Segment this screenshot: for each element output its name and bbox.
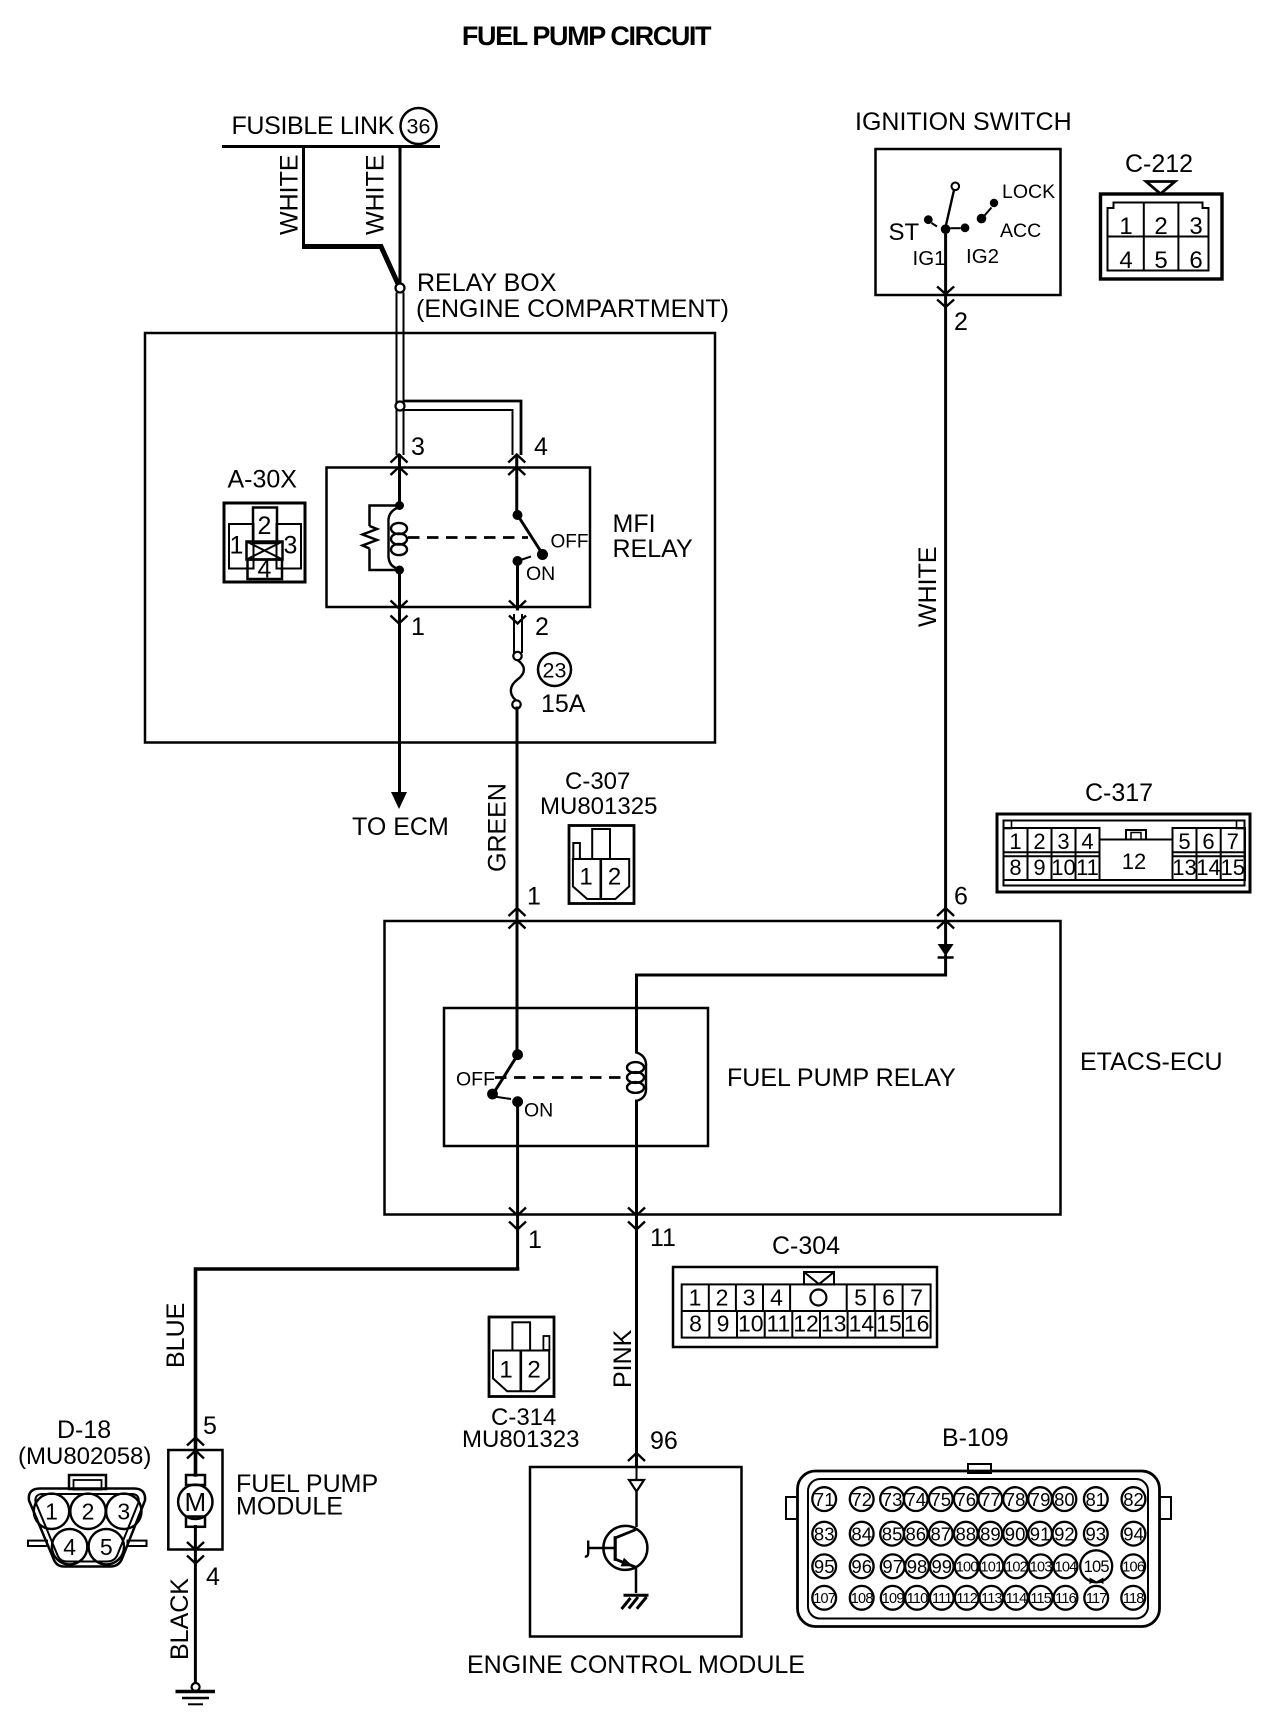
svg-text:75: 75 — [931, 1489, 952, 1510]
svg-text:C-317: C-317 — [1085, 779, 1153, 807]
ignition switch box — [876, 149, 1061, 295]
svg-text:4: 4 — [770, 1285, 783, 1311]
svg-text:3: 3 — [1057, 829, 1069, 854]
FP switch blade (OFF position) — [493, 1055, 518, 1094]
contact dot IG2 — [950, 223, 969, 232]
fuse number 23 — [538, 653, 571, 686]
svg-text:ON: ON — [526, 563, 555, 585]
contact dot LOCK — [990, 199, 998, 207]
pin 11 arrow — [628, 1208, 645, 1230]
FP OFF contact dot — [487, 1089, 498, 1100]
connector C-304 symbol — [673, 1267, 937, 1347]
wire thick jog joining left wire to right wire — [302, 247, 399, 287]
wire triangle to transistor — [635, 1492, 638, 1528]
svg-text:2: 2 — [1033, 829, 1045, 854]
svg-text:OFF: OFF — [456, 1069, 495, 1091]
svg-text:A-30X: A-30X — [228, 466, 298, 494]
svg-text:94: 94 — [1123, 1523, 1144, 1544]
fuel pump module box — [168, 1450, 222, 1550]
wire MFI coil feed — [398, 456, 401, 505]
svg-text:LOCK: LOCK — [1002, 181, 1055, 203]
svg-text:87: 87 — [931, 1523, 952, 1544]
svg-text:117: 117 — [1086, 1591, 1107, 1607]
svg-text:6: 6 — [882, 1285, 895, 1311]
svg-text:1: 1 — [579, 864, 592, 891]
wire WHITE left from fusible link — [302, 148, 305, 247]
wire switch to pin 2 — [516, 561, 519, 609]
fuse bottom ring — [512, 700, 520, 708]
svg-text:88: 88 — [956, 1523, 977, 1544]
svg-text:104: 104 — [1055, 1560, 1078, 1576]
svg-text:11: 11 — [1076, 855, 1099, 880]
svg-text:1: 1 — [230, 532, 244, 560]
connector C-307 symbol — [569, 826, 634, 904]
wire ignition common to pin 2 — [944, 229, 947, 944]
svg-text:90: 90 — [1005, 1523, 1026, 1544]
svg-text:23: 23 — [543, 659, 567, 683]
pin 1 arrow (ETACS top) — [509, 908, 526, 929]
svg-text:BLUE: BLUE — [162, 1303, 190, 1368]
svg-text:106: 106 — [1122, 1560, 1145, 1576]
wire WHITE right from fusible link — [399, 148, 402, 283]
svg-text:112: 112 — [956, 1591, 977, 1607]
input triangle (ECM) — [629, 1467, 644, 1492]
connector C-314 labels — [462, 1404, 579, 1453]
svg-text:96: 96 — [650, 1427, 678, 1455]
connector C-307 labels — [540, 768, 657, 820]
svg-text:4: 4 — [1119, 247, 1132, 274]
fuse element 23 15A — [511, 660, 524, 700]
dashed actuation line MFI — [408, 536, 528, 539]
svg-text:80: 80 — [1054, 1489, 1075, 1510]
svg-text:81: 81 — [1086, 1489, 1107, 1510]
transistor Q (ECM driver) — [585, 1526, 648, 1570]
svg-text:(MU802058): (MU802058) — [18, 1443, 151, 1470]
svg-text:14: 14 — [849, 1311, 875, 1337]
svg-text:11: 11 — [650, 1224, 676, 1252]
svg-text:105: 105 — [1084, 1558, 1110, 1576]
svg-text:RELAY: RELAY — [613, 535, 693, 563]
svg-text:82: 82 — [1123, 1489, 1144, 1510]
svg-text:2: 2 — [82, 1499, 95, 1525]
svg-text:FUEL PUMP RELAY: FUEL PUMP RELAY — [727, 1064, 956, 1092]
svg-text:2: 2 — [608, 864, 621, 891]
OFF contact dot — [537, 549, 548, 560]
MFI relay label — [613, 510, 693, 563]
svg-text:100: 100 — [956, 1560, 979, 1576]
junction dot top of coil — [395, 501, 404, 510]
junction ring at branch — [396, 402, 405, 411]
svg-text:WHITE: WHITE — [362, 154, 390, 235]
svg-text:IG2: IG2 — [966, 245, 999, 268]
svg-text:3: 3 — [284, 532, 298, 560]
svg-text:95: 95 — [814, 1556, 835, 1577]
pin 4 arrow (module) — [187, 1542, 204, 1564]
svg-text:OFF: OFF — [551, 532, 589, 553]
svg-text:FUSIBLE LINK: FUSIBLE LINK — [232, 112, 395, 140]
pin 2 arrow (ignition) — [937, 287, 954, 308]
svg-text:BLACK: BLACK — [166, 1578, 194, 1660]
connector B-109 symbol — [786, 1464, 1171, 1627]
svg-text:5: 5 — [1154, 247, 1167, 274]
svg-text:TO ECM: TO ECM — [352, 813, 449, 841]
fuel pump module label — [236, 1470, 378, 1521]
junction dot bottom of coil — [395, 566, 404, 575]
svg-text:71: 71 — [814, 1489, 835, 1510]
pin 2 arrow — [509, 601, 526, 624]
wire transistor to ground — [635, 1566, 638, 1593]
wire motor to pin 4 — [194, 1527, 197, 1684]
svg-text:ST: ST — [889, 219, 920, 246]
svg-text:110: 110 — [907, 1591, 928, 1607]
pin 1 arrow (ETACS bottom) — [509, 1208, 526, 1230]
svg-text:97: 97 — [882, 1556, 903, 1577]
svg-text:12: 12 — [1122, 849, 1146, 874]
wire double-line vertical into relay box — [397, 293, 404, 456]
svg-text:ACC: ACC — [1000, 220, 1041, 242]
svg-text:116: 116 — [1055, 1591, 1076, 1607]
svg-text:77: 77 — [980, 1489, 1001, 1510]
svg-text:13: 13 — [821, 1311, 847, 1337]
ignition switch pivot ring — [952, 183, 960, 191]
connector D-18 labels — [18, 1416, 151, 1470]
wire double-line branch to pin 4 — [404, 401, 522, 455]
svg-text:2: 2 — [954, 308, 968, 336]
svg-text:86: 86 — [906, 1523, 927, 1544]
svg-text:16: 16 — [904, 1311, 930, 1337]
arrow TO ECM — [391, 792, 407, 809]
svg-text:8: 8 — [689, 1311, 702, 1337]
resistor parallel with coil — [363, 506, 398, 571]
pin 96 arrow — [628, 1453, 645, 1461]
fusible link bus bar — [222, 145, 440, 148]
svg-text:1: 1 — [689, 1285, 702, 1311]
svg-text:78: 78 — [1005, 1489, 1026, 1510]
ETACS-ECU box — [385, 921, 1061, 1215]
relay box label — [416, 269, 729, 323]
switch common dot — [513, 510, 523, 520]
pin 1 arrow — [391, 601, 408, 624]
svg-text:2: 2 — [535, 613, 549, 641]
svg-text:1: 1 — [1119, 213, 1132, 240]
svg-text:1: 1 — [527, 883, 541, 911]
ignition switch common dot IG1 — [941, 224, 951, 234]
pin 5 arrow — [187, 1438, 204, 1459]
svg-text:13: 13 — [1172, 855, 1196, 880]
wire BLUE ETACS pin 1 to fuel pump module — [196, 1269, 518, 1475]
FP relay coil — [627, 1053, 646, 1102]
svg-text:3: 3 — [1189, 213, 1202, 240]
svg-text:5: 5 — [203, 1412, 217, 1440]
svg-text:MU801323: MU801323 — [462, 1426, 579, 1453]
svg-text:MODULE: MODULE — [236, 1493, 343, 1521]
svg-text:83: 83 — [814, 1523, 835, 1544]
svg-text:2: 2 — [1154, 213, 1167, 240]
svg-text:ON: ON — [524, 1100, 553, 1122]
svg-text:115: 115 — [1030, 1591, 1051, 1607]
svg-text:1: 1 — [528, 1226, 542, 1254]
svg-text:M: M — [184, 1487, 206, 1517]
svg-text:102: 102 — [1005, 1560, 1028, 1576]
svg-text:15A: 15A — [541, 690, 586, 718]
svg-text:3: 3 — [743, 1285, 756, 1311]
MFI relay box — [327, 468, 591, 608]
svg-text:76: 76 — [956, 1489, 977, 1510]
svg-text:(ENGINE COMPARTMENT): (ENGINE COMPARTMENT) — [416, 295, 729, 323]
svg-text:108: 108 — [851, 1591, 874, 1607]
FP ON contact stub — [494, 1097, 511, 1100]
switch blade (OFF position) — [518, 515, 543, 554]
svg-text:6: 6 — [1202, 829, 1214, 854]
svg-text:PINK: PINK — [609, 1329, 637, 1388]
MFI relay coil L — [388, 507, 407, 569]
svg-text:9: 9 — [717, 1311, 730, 1337]
pin 6 arrow — [937, 908, 954, 929]
svg-text:C-304: C-304 — [772, 1232, 840, 1260]
svg-text:4: 4 — [206, 1563, 220, 1591]
svg-text:6: 6 — [954, 883, 968, 911]
svg-text:10: 10 — [738, 1311, 764, 1337]
FP ON contact dot — [512, 1096, 523, 1107]
wire coil to pin 1 — [398, 571, 401, 792]
svg-text:12: 12 — [793, 1311, 819, 1337]
ON contact dot — [513, 556, 523, 566]
svg-text:2: 2 — [258, 512, 272, 540]
svg-text:73: 73 — [882, 1489, 903, 1510]
svg-text:WHITE: WHITE — [276, 154, 304, 235]
FP switch common dot — [512, 1049, 523, 1060]
wire GREEN fuse to ETACS pin 1 — [516, 708, 519, 1050]
svg-text:11: 11 — [766, 1311, 790, 1337]
svg-text:118: 118 — [1123, 1591, 1144, 1607]
svg-text:3: 3 — [117, 1499, 130, 1525]
svg-text:91: 91 — [1030, 1523, 1051, 1544]
svg-text:7: 7 — [910, 1285, 923, 1311]
svg-text:1: 1 — [45, 1499, 58, 1525]
svg-text:1: 1 — [499, 1357, 512, 1384]
svg-text:4: 4 — [258, 556, 272, 584]
svg-text:89: 89 — [980, 1523, 1001, 1544]
svg-text:FUEL PUMP CIRCUIT: FUEL PUMP CIRCUIT — [462, 21, 712, 51]
svg-text:C-212: C-212 — [1125, 150, 1193, 178]
svg-text:WHITE: WHITE — [914, 546, 942, 627]
svg-text:101: 101 — [981, 1560, 1004, 1576]
connector C-212 symbol — [1101, 194, 1223, 279]
svg-text:GREEN: GREEN — [484, 783, 512, 872]
svg-text:3: 3 — [411, 433, 425, 461]
svg-text:99: 99 — [932, 1556, 953, 1577]
svg-text:15: 15 — [876, 1311, 902, 1337]
svg-text:5: 5 — [854, 1285, 867, 1311]
svg-text:2: 2 — [716, 1285, 729, 1311]
svg-text:74: 74 — [906, 1489, 927, 1510]
svg-text:MU801325: MU801325 — [540, 793, 657, 820]
svg-text:10: 10 — [1051, 855, 1075, 880]
svg-text:ENGINE CONTROL MODULE: ENGINE CONTROL MODULE — [467, 1651, 805, 1679]
svg-text:98: 98 — [907, 1556, 928, 1577]
svg-text:2: 2 — [527, 1357, 540, 1384]
engine control module box — [530, 1467, 742, 1637]
svg-text:C-307: C-307 — [565, 768, 630, 795]
wire double-line below pin 2 — [514, 614, 522, 653]
svg-text:8: 8 — [1009, 855, 1021, 880]
svg-text:107: 107 — [813, 1591, 836, 1607]
connector A-30X symbol — [224, 503, 305, 584]
svg-text:5: 5 — [100, 1534, 113, 1560]
svg-text:113: 113 — [981, 1591, 1002, 1607]
svg-text:103: 103 — [1030, 1560, 1053, 1576]
svg-text:ETACS-ECU: ETACS-ECU — [1080, 1048, 1223, 1076]
svg-text:14: 14 — [1196, 855, 1220, 880]
svg-text:15: 15 — [1221, 855, 1245, 880]
svg-text:4: 4 — [1081, 829, 1093, 854]
svg-text:84: 84 — [851, 1523, 872, 1544]
svg-text:4: 4 — [534, 433, 548, 461]
connector D-18 symbol — [28, 1475, 147, 1567]
svg-text:1: 1 — [1009, 829, 1021, 854]
svg-text:92: 92 — [1054, 1523, 1075, 1544]
contact dot ST — [924, 215, 937, 226]
svg-text:B-109: B-109 — [942, 1424, 1009, 1452]
dashed actuation line (fuel pump relay) — [495, 1076, 627, 1079]
fuse top ring — [513, 652, 521, 660]
wire FP switch to ETACS pin 1 (bottom) — [516, 1102, 519, 1269]
svg-text:114: 114 — [1006, 1591, 1027, 1607]
junction ring at relay box feed — [396, 284, 405, 293]
wire FP coil to ETACS pin 11 — [635, 1101, 638, 1466]
svg-text:9: 9 — [1033, 855, 1045, 880]
connector C-317 symbol — [997, 814, 1250, 892]
svg-text:6: 6 — [1189, 247, 1202, 274]
svg-text:MFI: MFI — [613, 510, 656, 538]
svg-text:IGNITION SWITCH: IGNITION SWITCH — [855, 108, 1072, 136]
connector C-212 keying triangle — [1146, 182, 1175, 194]
pin 3 arrow — [391, 455, 408, 476]
svg-text:RELAY BOX: RELAY BOX — [417, 269, 557, 297]
svg-text:5: 5 — [1178, 829, 1190, 854]
fusible link number 36 — [401, 108, 437, 144]
svg-text:72: 72 — [851, 1489, 872, 1510]
svg-text:IG1: IG1 — [913, 247, 946, 270]
svg-text:111: 111 — [932, 1591, 952, 1607]
ground (ECM) — [622, 1595, 649, 1609]
fuel pump relay box — [444, 1008, 708, 1146]
wire diode to fuel pump relay coil — [637, 956, 946, 1052]
connector C-314 symbol — [489, 1317, 554, 1397]
pin 4 arrow — [508, 455, 525, 476]
diode (ETACS input) — [938, 944, 954, 958]
svg-text:109: 109 — [882, 1591, 905, 1607]
svg-text:36: 36 — [407, 115, 431, 139]
wire MFI switch feed — [515, 456, 518, 513]
svg-text:4: 4 — [63, 1534, 76, 1560]
motor M symbol — [178, 1475, 212, 1527]
ignition switch blade — [946, 190, 954, 226]
svg-text:85: 85 — [882, 1523, 903, 1544]
ON contact stub — [518, 557, 532, 562]
svg-text:1: 1 — [411, 613, 425, 641]
relay box (engine compartment) outline — [145, 333, 715, 743]
svg-text:96: 96 — [851, 1556, 872, 1577]
ground (fuel pump) — [176, 1683, 216, 1704]
svg-text:D-18: D-18 — [57, 1416, 111, 1444]
svg-text:79: 79 — [1030, 1489, 1051, 1510]
contact dot ACC — [977, 208, 992, 224]
svg-text:93: 93 — [1086, 1523, 1107, 1544]
svg-text:7: 7 — [1227, 829, 1239, 854]
